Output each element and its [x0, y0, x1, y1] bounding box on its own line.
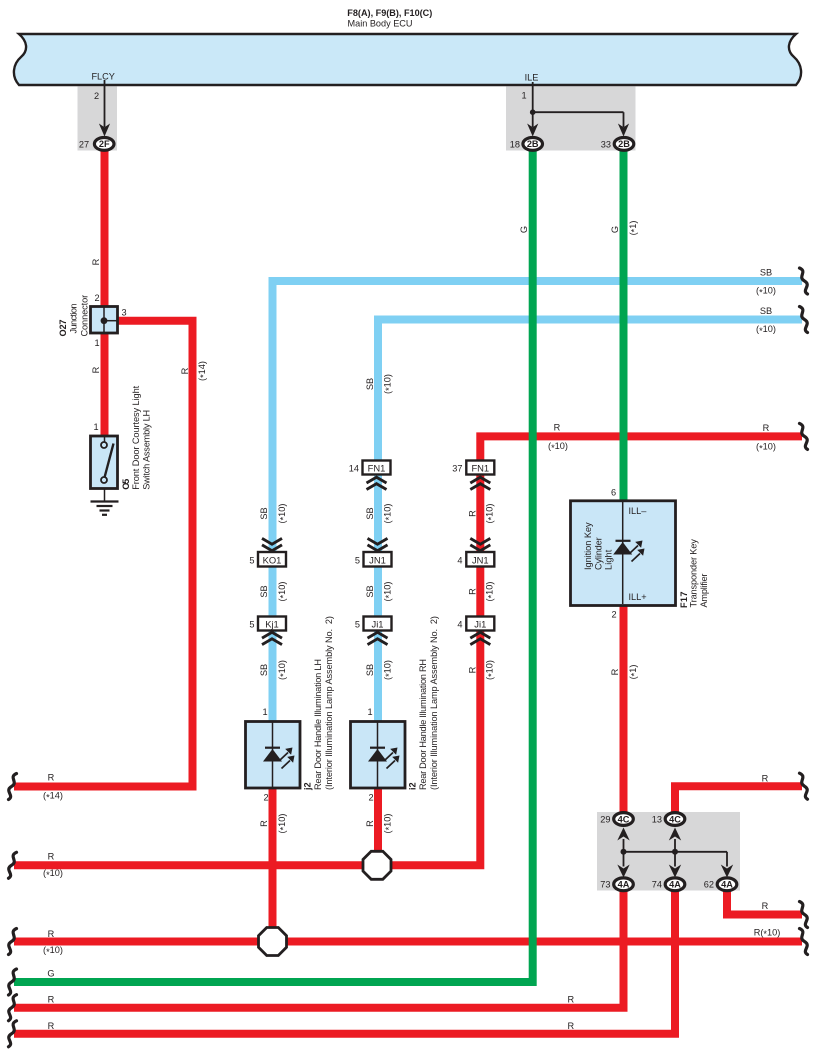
svg-text:(*10): (*10) — [382, 504, 394, 524]
svg-text:1: 1 — [94, 338, 99, 348]
svg-text:(*10): (*10) — [277, 504, 289, 524]
svg-text:F8(A), F9(B), F10(C): F8(A), F9(B), F10(C) — [347, 7, 432, 18]
svg-text:(*10): (*10) — [382, 660, 394, 680]
svg-text:R: R — [48, 772, 55, 782]
svg-text:SB: SB — [365, 378, 375, 390]
svg-text:4C: 4C — [669, 814, 681, 824]
svg-text:Amplifier: Amplifier — [699, 574, 709, 608]
svg-text:KO1: KO1 — [263, 554, 282, 565]
svg-text:SB: SB — [259, 507, 269, 519]
svg-text:5: 5 — [355, 555, 360, 565]
svg-text:G: G — [519, 226, 529, 233]
svg-text:R: R — [259, 820, 269, 827]
svg-text:SB: SB — [760, 268, 772, 278]
svg-text:(*1): (*1) — [628, 665, 640, 680]
svg-text:Switch Assembly LH: Switch Assembly LH — [142, 410, 152, 490]
svg-text:R: R — [467, 666, 477, 673]
svg-text:4A: 4A — [618, 880, 630, 890]
svg-text:4: 4 — [457, 620, 462, 630]
svg-text:(*10): (*10) — [277, 814, 289, 834]
svg-text:2F: 2F — [99, 139, 110, 149]
svg-text:R: R — [180, 367, 190, 374]
svg-text:FN1: FN1 — [471, 463, 489, 474]
svg-text:(*14): (*14) — [43, 791, 63, 803]
svg-text:5: 5 — [249, 555, 254, 565]
svg-text:R: R — [467, 510, 477, 517]
svg-text:(*10): (*10) — [277, 582, 289, 602]
svg-text:R: R — [91, 366, 101, 373]
svg-text:SB: SB — [365, 507, 375, 519]
svg-text:(*10): (*10) — [277, 660, 289, 680]
svg-text:4A: 4A — [721, 880, 733, 890]
svg-text:FN1: FN1 — [368, 463, 386, 474]
svg-text:Ji1: Ji1 — [474, 619, 486, 630]
svg-text:(Interior Illumination Lamp As: (Interior Illumination Lamp Assembly No.… — [429, 616, 439, 790]
svg-text:Ji1: Ji1 — [372, 619, 384, 630]
svg-text:29: 29 — [600, 815, 610, 825]
svg-text:Transponder Key: Transponder Key — [688, 539, 698, 608]
svg-text:5: 5 — [355, 620, 360, 630]
svg-text:Connector: Connector — [79, 295, 89, 337]
svg-text:4C: 4C — [618, 814, 630, 824]
svg-text:O27: O27 — [58, 320, 68, 337]
svg-text:ILL+: ILL+ — [629, 592, 647, 602]
svg-text:G: G — [610, 226, 620, 233]
svg-text:5: 5 — [249, 620, 254, 630]
svg-text:R(*10): R(*10) — [754, 927, 781, 939]
svg-text:SB: SB — [259, 585, 269, 597]
svg-text:Ignition Key: Ignition Key — [583, 522, 593, 570]
svg-text:18: 18 — [510, 140, 520, 150]
svg-text:4A: 4A — [669, 880, 681, 890]
svg-text:R: R — [554, 423, 561, 433]
svg-text:j2: j2 — [303, 782, 313, 791]
svg-text:(*10): (*10) — [382, 374, 394, 394]
svg-text:13: 13 — [652, 815, 662, 825]
svg-text:Kj1: Kj1 — [265, 619, 279, 630]
svg-text:R: R — [467, 588, 477, 595]
svg-text:JN1: JN1 — [369, 554, 386, 565]
svg-text:i2: i2 — [408, 782, 418, 790]
svg-text:(*10): (*10) — [43, 868, 63, 880]
svg-text:(*10): (*10) — [756, 324, 776, 336]
svg-text:R: R — [48, 994, 55, 1004]
svg-text:4: 4 — [457, 555, 462, 565]
svg-text:R: R — [91, 258, 101, 265]
svg-text:R: R — [48, 852, 55, 862]
svg-text:(*14): (*14) — [197, 361, 209, 381]
svg-text:(*1): (*1) — [628, 221, 640, 236]
svg-text:14: 14 — [349, 464, 359, 474]
svg-text:Rear Door Handle Illumination: Rear Door Handle Illumination RH — [418, 659, 428, 790]
svg-text:SB: SB — [259, 664, 269, 676]
svg-text:2B: 2B — [527, 139, 539, 149]
svg-text:3: 3 — [121, 308, 126, 318]
svg-text:R: R — [48, 929, 55, 939]
svg-text:1: 1 — [521, 91, 526, 101]
svg-text:R: R — [365, 820, 375, 827]
svg-text:27: 27 — [79, 140, 89, 150]
svg-text:R: R — [567, 994, 574, 1004]
svg-text:(*10): (*10) — [382, 814, 394, 834]
svg-text:73: 73 — [600, 880, 610, 890]
svg-text:(*10): (*10) — [382, 582, 394, 602]
svg-text:Cylinder: Cylinder — [594, 537, 604, 570]
svg-text:R: R — [48, 1021, 55, 1031]
svg-text:(Interior Illumination Lamp As: (Interior Illumination Lamp Assembly No.… — [324, 616, 334, 790]
svg-text:ILL–: ILL– — [629, 506, 648, 516]
svg-text:2: 2 — [611, 610, 616, 620]
svg-text:2: 2 — [263, 793, 268, 803]
svg-text:1: 1 — [93, 422, 98, 432]
svg-text:G: G — [47, 968, 54, 978]
svg-text:2B: 2B — [618, 139, 630, 149]
svg-text:33: 33 — [601, 140, 611, 150]
svg-text:(*10): (*10) — [756, 286, 776, 298]
svg-text:62: 62 — [704, 880, 714, 890]
svg-text:SB: SB — [365, 664, 375, 676]
svg-text:1: 1 — [367, 707, 372, 717]
svg-text:SB: SB — [760, 306, 772, 316]
svg-text:74: 74 — [652, 880, 662, 890]
svg-text:ILE: ILE — [525, 73, 539, 83]
svg-text:1: 1 — [262, 707, 267, 717]
svg-text:R: R — [567, 1021, 574, 1031]
svg-text:Front Door Courtesy Light: Front Door Courtesy Light — [131, 385, 141, 489]
svg-text:2: 2 — [94, 293, 99, 303]
svg-text:FLCY: FLCY — [91, 72, 115, 82]
svg-text:(*10): (*10) — [43, 945, 63, 957]
svg-text:Main Body ECU: Main Body ECU — [348, 18, 413, 28]
svg-text:R: R — [763, 423, 770, 433]
svg-text:R: R — [762, 901, 769, 911]
svg-text:6: 6 — [611, 488, 616, 498]
svg-text:SB: SB — [365, 585, 375, 597]
svg-text:R: R — [610, 668, 620, 675]
svg-text:(*10): (*10) — [485, 660, 497, 680]
svg-text:37: 37 — [452, 464, 462, 474]
svg-text:2: 2 — [368, 793, 373, 803]
svg-text:Junction: Junction — [68, 304, 78, 334]
svg-text:JN1: JN1 — [472, 554, 489, 565]
svg-text:(*10): (*10) — [485, 582, 497, 602]
svg-text:Light: Light — [604, 549, 614, 570]
svg-text:O5: O5 — [121, 479, 131, 490]
svg-text:(*10): (*10) — [548, 441, 568, 453]
svg-text:2: 2 — [94, 91, 99, 101]
svg-text:Rear Door Handle Illumination: Rear Door Handle Illumination LH — [313, 659, 323, 790]
svg-text:(*10): (*10) — [485, 504, 497, 524]
svg-text:R: R — [762, 773, 769, 783]
svg-text:(*10): (*10) — [756, 442, 776, 454]
